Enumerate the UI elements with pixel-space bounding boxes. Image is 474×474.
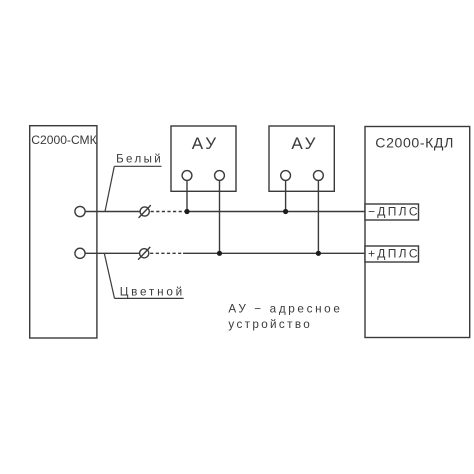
svg-text:С2000-СМК: С2000-СМК — [31, 133, 96, 147]
svg-text:АУ: АУ — [192, 134, 219, 153]
terminal 1 of left АУ — [182, 171, 192, 181]
wire: +ДПЛС dashed break segment — [150, 252, 183, 254]
terminal box −ДПЛС of С2000-КДЛ — [365, 204, 420, 220]
wire: +ДПЛС line, solid segment from СМК terminal — [85, 252, 139, 254]
addressable device АУ (left) — [171, 126, 236, 191]
wire: left АУ terminal 1 drop — [186, 180, 188, 211]
junction: left АУ on +ДПЛС wire — [217, 251, 222, 256]
svg-text:С2000-КДЛ: С2000-КДЛ — [375, 134, 454, 150]
wire: right АУ terminal 1 drop — [285, 180, 287, 211]
wire: −ДПЛС line, solid segment from СМК terminal — [85, 211, 140, 213]
block С2000-СМК — [30, 126, 97, 338]
terminal 1 of right АУ — [281, 171, 291, 181]
wire: −ДПЛС dashed break segment — [151, 211, 185, 213]
svg-text:АУ − адресное: АУ − адресное — [228, 302, 342, 315]
block С2000-КДЛ — [365, 127, 470, 338]
terminal 2 of right АУ — [314, 171, 324, 181]
wire: left АУ terminal 2 drop — [219, 180, 221, 253]
twist mark on +ДПЛС wire — [138, 247, 150, 260]
svg-text:АУ: АУ — [291, 134, 318, 153]
terminal box +ДПЛС of С2000-КДЛ — [365, 246, 420, 262]
label Цветной with leader — [104, 253, 185, 298]
junction: right АУ on −ДПЛС wire — [283, 209, 288, 214]
label Белый with leader — [105, 153, 163, 211]
terminal 2 of left АУ — [215, 171, 225, 181]
svg-text:Цветной: Цветной — [120, 286, 185, 299]
junction: left АУ on −ДПЛС wire — [184, 209, 189, 214]
wire: right АУ terminal 2 drop — [317, 180, 319, 253]
note: АУ – адресное устройство — [228, 302, 342, 331]
terminal (minus) of С2000-СМК — [75, 206, 85, 216]
terminal (plus) of С2000-СМК — [75, 248, 85, 258]
twist mark on −ДПЛС wire — [139, 205, 151, 218]
junction: right АУ on +ДПЛС wire — [316, 251, 321, 256]
wire: +ДПЛС line to КДЛ — [183, 252, 365, 254]
svg-text:Белый: Белый — [116, 153, 163, 165]
svg-text:+ДПЛС: +ДПЛС — [368, 247, 420, 261]
svg-text:−ДПЛС: −ДПЛС — [368, 205, 420, 219]
addressable device АУ (right) — [269, 126, 334, 191]
svg-text:устройство: устройство — [228, 318, 312, 331]
wire: −ДПЛС line to КДЛ — [185, 211, 365, 213]
